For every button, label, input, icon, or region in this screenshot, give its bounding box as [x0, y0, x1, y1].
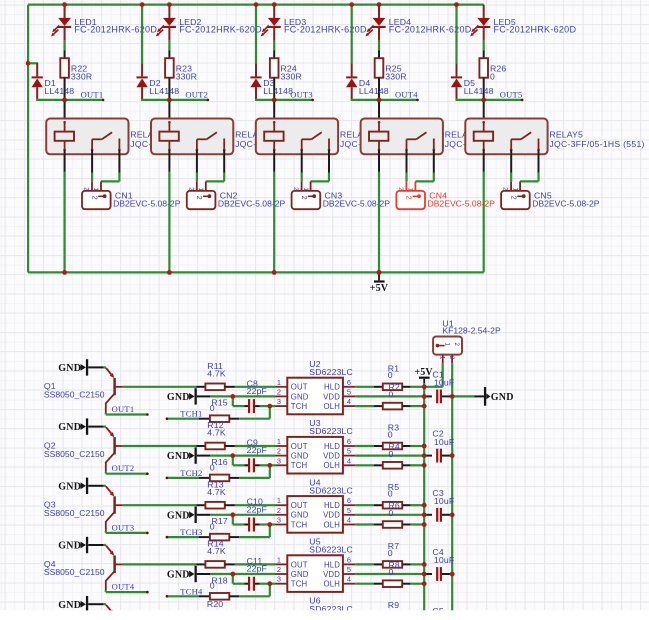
- pin lead U4 pin 5: [343, 514, 355, 516]
- resistor R6 0 labels: [389, 501, 400, 518]
- wire U1 pin1 to +5V node: [424, 363, 443, 387]
- wire U3 VDD to +5V rail: [355, 455, 424, 457]
- svg-text:LL4148: LL4148: [263, 86, 293, 96]
- ground flag GND U2: [167, 388, 233, 404]
- svg-text:TCH: TCH: [291, 402, 307, 411]
- resistor R8 0 labels: [389, 560, 400, 577]
- svg-text:KF128-2.54-2P: KF128-2.54-2P: [442, 326, 501, 336]
- svg-text:GND: GND: [58, 600, 81, 611]
- svg-text:1: 1: [444, 342, 451, 346]
- wire R4 to +5V rail: [411, 464, 425, 466]
- wire TCH node drop: [269, 465, 271, 478]
- svg-text:LL4148: LL4148: [149, 86, 179, 96]
- capacitor C3 10uF: [424, 488, 454, 522]
- pin lead U2 pin 3: [275, 405, 287, 407]
- wire left vertical rail: [27, 5, 29, 273]
- pin number 3: [277, 516, 281, 525]
- resistor R6 0: [374, 521, 411, 528]
- wire OUT5 node to relay coil: [483, 100, 485, 122]
- wire R5 to +5V rail: [411, 504, 425, 506]
- wire TCH node to U5 pin3: [270, 583, 275, 585]
- resistor R13 4.7K: [196, 479, 235, 508]
- svg-text:+5V: +5V: [370, 283, 389, 294]
- svg-text:+5V: +5V: [415, 367, 434, 378]
- net label OUT3: [274, 90, 314, 102]
- pin lead U4 pin 3: [275, 524, 287, 526]
- svg-text:1: 1: [197, 188, 204, 192]
- svg-text:R9: R9: [388, 600, 399, 610]
- svg-text:OUT2: OUT2: [185, 90, 208, 100]
- wire R22 to OUT1 node: [64, 78, 66, 100]
- IC U5 SD6223LC: [287, 537, 353, 592]
- resistor R8 0: [374, 580, 411, 587]
- svg-text:FC-2012HRK-620D: FC-2012HRK-620D: [179, 24, 262, 34]
- svg-text:10uF: 10uF: [434, 496, 454, 506]
- capacitor C11 22pF: [233, 556, 270, 591]
- wire R17 to TCH node: [239, 536, 270, 538]
- resistor R7 0: [374, 541, 411, 568]
- svg-text:TCH: TCH: [291, 461, 307, 470]
- wire TCH node drop: [269, 406, 271, 419]
- pin number 4: [347, 456, 351, 465]
- wire relay3 common to CN3 pin2: [301, 150, 303, 182]
- pin number 6: [347, 437, 351, 446]
- svg-text:DB2EVC-5.08-2P: DB2EVC-5.08-2P: [218, 198, 286, 208]
- svg-text:SD6223LC: SD6223LC: [309, 426, 353, 436]
- wire LED4 to R25: [378, 41, 380, 59]
- capacitor C8 22pF: [233, 378, 270, 413]
- junction dot GND rail row 3: [450, 512, 455, 517]
- pin number 4: [347, 397, 351, 406]
- pin number 5: [347, 387, 351, 396]
- ground flag GND Q4: [58, 537, 106, 553]
- svg-text:DB2EVC-5.08-2P: DB2EVC-5.08-2P: [323, 198, 391, 208]
- junction dot OUT4 node: [377, 98, 382, 103]
- junction dot OUT3 node: [272, 98, 277, 103]
- svg-text:4.7K: 4.7K: [207, 546, 226, 556]
- svg-text:0: 0: [210, 581, 215, 591]
- connector CN1 DB2EVC-5.08-2P: [82, 181, 181, 209]
- wire U4 OLH to R6: [355, 523, 374, 525]
- junction dot GND rail row 4: [450, 572, 455, 577]
- resistor R24 330R: [270, 58, 302, 81]
- svg-text:VDD: VDD: [323, 570, 340, 579]
- junction dot +5V flag: [377, 270, 382, 275]
- wire R15 to TCH node: [239, 418, 270, 420]
- svg-text:2: 2: [448, 356, 455, 360]
- wire relay1 common to CN1 pin2: [91, 150, 93, 182]
- junction dot +5V rail row 4 c: [422, 581, 427, 586]
- junction dot top bus LED4: [377, 2, 382, 7]
- svg-text:OUT: OUT: [291, 560, 308, 569]
- svg-text:0: 0: [210, 522, 215, 532]
- LED LED1 FC-2012HRK-620D: [51, 17, 157, 41]
- ground flag GND Q2: [58, 418, 106, 434]
- pin number 3: [277, 456, 281, 465]
- svg-text:2: 2: [453, 342, 460, 346]
- wire Q4 base to R14: [123, 563, 197, 565]
- wire R13 to U4 pin1: [235, 504, 275, 506]
- junction dot +5V rail row 3 b: [422, 512, 427, 517]
- wire LED2 anode drop: [168, 5, 170, 18]
- svg-text:4: 4: [347, 516, 351, 525]
- pin number 2: [277, 387, 281, 396]
- svg-text:0: 0: [210, 403, 215, 413]
- svg-text:3: 3: [277, 456, 281, 465]
- resistor R4 0: [374, 462, 411, 469]
- svg-text:LL4148: LL4148: [359, 86, 389, 96]
- resistor R20 label: [207, 599, 223, 609]
- svg-text:1: 1: [277, 496, 281, 505]
- svg-text:2: 2: [277, 565, 281, 574]
- capacitor C10 22pF: [233, 497, 270, 532]
- junction dot +5V rail row 3 c: [422, 522, 427, 527]
- wire U2 VDD to +5V rail: [355, 395, 424, 397]
- wire OUT4 node to relay coil: [378, 100, 380, 122]
- wire LED3 anode drop: [273, 5, 275, 18]
- svg-text:330R: 330R: [281, 71, 302, 81]
- net label TCH1: [166, 409, 203, 420]
- wire relay1 NO contact to CN1 pin1: [101, 150, 119, 182]
- wire D5 to OUT5 node: [456, 99, 484, 100]
- wire D3 drop: [255, 5, 257, 77]
- svg-text:SS8050_C2150: SS8050_C2150: [44, 567, 105, 577]
- resistor R14 4.7K: [196, 539, 235, 568]
- svg-text:FC-2012HRK-620D: FC-2012HRK-620D: [494, 24, 577, 34]
- wire LED4 anode drop: [378, 5, 380, 18]
- pin lead U3 pin 5: [343, 455, 355, 457]
- junction dot TCH node row 3: [267, 522, 272, 527]
- resistor R17 0: [199, 516, 240, 540]
- svg-text:VDD: VDD: [323, 511, 340, 520]
- svg-text:VDD: VDD: [323, 452, 340, 461]
- net label TCH2: [166, 468, 203, 479]
- pin lead U3 pin 4: [343, 464, 355, 466]
- svg-text:0: 0: [389, 449, 394, 459]
- diode D5 LL4148: [451, 76, 494, 99]
- wire U4 VDD to +5V rail: [355, 514, 424, 516]
- junction dot D5 top: [454, 2, 459, 7]
- wire R12 to U3 pin1: [235, 445, 275, 447]
- pin number 3: [277, 397, 281, 406]
- svg-text:OLH: OLH: [324, 461, 340, 470]
- wire R18 to TCH node: [239, 595, 270, 597]
- junction dot top bus LED3: [272, 2, 277, 7]
- junction dot D1 tap: [26, 61, 31, 66]
- net label OUT4 (driver): [106, 582, 149, 594]
- svg-text:HLD: HLD: [324, 560, 340, 569]
- capacitor C9 22pF: [233, 438, 270, 473]
- IC U4 pin names: [291, 501, 340, 529]
- pin number 1: [277, 496, 281, 505]
- pin lead U3 pin 6: [343, 445, 355, 447]
- diode D4 LL4148: [346, 76, 389, 99]
- wire GND node to U5 pin2: [233, 573, 275, 575]
- junction dot OUT5 node: [481, 98, 486, 103]
- IC U6 SD6223LC: [287, 596, 353, 620]
- pin number 2: [277, 565, 281, 574]
- junction dot bus ch2: [167, 270, 172, 275]
- wire LED2 to R23: [168, 41, 170, 59]
- wire R16 to TCH node: [239, 477, 270, 479]
- svg-text:OUT3: OUT3: [112, 522, 135, 532]
- transistor Q3 SS8050_C2150: [44, 486, 123, 531]
- pin lead U5 pin 6: [343, 563, 355, 565]
- svg-text:5: 5: [347, 447, 351, 456]
- pin lead U4 pin 4: [343, 524, 355, 526]
- svg-text:4: 4: [347, 397, 351, 406]
- LED LED5 FC-2012HRK-620D: [470, 17, 576, 41]
- svg-text:GND: GND: [58, 422, 81, 433]
- wire GND node to U2 pin2: [233, 395, 275, 397]
- svg-text:1: 1: [277, 378, 281, 387]
- svg-text:2: 2: [277, 506, 281, 515]
- junction dot GND-cap node row 3: [230, 512, 235, 517]
- capacitor C2 10uF: [424, 429, 454, 463]
- svg-text:HLD: HLD: [324, 383, 340, 392]
- resistor R26 0: [479, 58, 506, 81]
- svg-text:4.7K: 4.7K: [207, 368, 226, 378]
- svg-text:GND: GND: [167, 392, 190, 403]
- pin lead U5 pin 1: [275, 563, 287, 565]
- wire U4 HLD to R5: [355, 504, 374, 506]
- svg-text:22pF: 22pF: [247, 564, 267, 574]
- wire TCH node drop: [269, 525, 271, 538]
- svg-text:10uF: 10uF: [434, 378, 454, 388]
- LED LED4 FC-2012HRK-620D: [365, 17, 471, 41]
- svg-text:TCH: TCH: [291, 520, 307, 529]
- wire TCH node to U3 pin3: [270, 464, 275, 466]
- wire TCH node drop: [269, 584, 271, 597]
- wire GND node to U3 pin2: [233, 455, 275, 457]
- svg-text:0: 0: [388, 548, 393, 558]
- svg-text:0: 0: [389, 508, 394, 518]
- svg-text:OLH: OLH: [324, 402, 340, 411]
- junction dot +5V rail row 2 b: [422, 453, 427, 458]
- junction dot GND rail row 2: [450, 453, 455, 458]
- ground flag GND Q3: [58, 478, 106, 494]
- diode D2 LL4148: [136, 76, 179, 99]
- svg-text:2: 2: [187, 187, 194, 191]
- wire LED1 to R22: [63, 41, 65, 59]
- svg-text:SD6223LC: SD6223LC: [309, 367, 353, 377]
- relay RELAY5 JQC-3FF/05-1HS (551): [465, 119, 644, 155]
- junction dot OUT2 node: [167, 98, 172, 103]
- ground flag GND U5: [167, 566, 233, 582]
- wire OUT1 node to relay coil: [64, 100, 66, 122]
- LED LED2 FC-2012HRK-620D: [156, 17, 262, 41]
- junction dot D3 top: [254, 2, 259, 7]
- transistor Q5 SS8050_C2150: [106, 605, 123, 620]
- svg-text:10uF: 10uF: [434, 555, 454, 565]
- svg-text:GND: GND: [167, 510, 190, 521]
- wire R23 to OUT2 node: [168, 78, 170, 100]
- ground flag GND U3: [167, 447, 233, 463]
- pin number 6: [347, 378, 351, 387]
- svg-text:2: 2: [300, 196, 309, 200]
- resistor R23 330R: [165, 58, 197, 81]
- wire R7 to +5V rail: [411, 563, 425, 565]
- wire D4 drop: [351, 5, 353, 77]
- pin number 1: [277, 378, 281, 387]
- pin lead U2 pin 4: [343, 405, 355, 407]
- pin lead U5 pin 2: [275, 573, 287, 575]
- svg-text:FC-2012HRK-620D: FC-2012HRK-620D: [389, 24, 472, 34]
- wire U5 VDD to +5V rail: [355, 573, 424, 575]
- wire D3 to OUT3 node: [255, 99, 274, 100]
- svg-text:DB2EVC-5.08-2P: DB2EVC-5.08-2P: [428, 198, 496, 208]
- wire U5 HLD to R7: [355, 563, 374, 565]
- wire R3 to +5V rail: [411, 445, 425, 447]
- wire U3 OLH to R4: [355, 464, 374, 466]
- svg-text:GND: GND: [167, 570, 190, 581]
- svg-text:6: 6: [347, 555, 351, 564]
- wire R25 to OUT4 node: [378, 78, 380, 100]
- pin number 5: [347, 447, 351, 456]
- wire U2 HLD to R1: [355, 386, 374, 388]
- connector CN3 DB2EVC-5.08-2P: [292, 181, 391, 209]
- pin number 5: [347, 506, 351, 515]
- svg-text:OUT: OUT: [291, 501, 308, 510]
- power flag +5V bottom: [370, 272, 389, 294]
- svg-text:2: 2: [195, 196, 204, 200]
- connector U1 KF128-2.54-2P: [433, 318, 501, 363]
- svg-text:2: 2: [277, 387, 281, 396]
- pin lead U5 pin 3: [275, 583, 287, 585]
- wire Q3 base to R13: [123, 504, 197, 506]
- junction dot bus ch1: [62, 270, 67, 275]
- pin lead U2 pin 6: [343, 386, 355, 388]
- pin lead U4 pin 6: [343, 504, 355, 506]
- wire +5V top bus: [28, 3, 484, 5]
- junction dot D4 top: [349, 2, 354, 7]
- svg-text:2: 2: [277, 447, 281, 456]
- junction dot TCH node row 1: [267, 404, 272, 409]
- svg-text:GND: GND: [291, 392, 309, 401]
- IC U3 SD6223LC: [287, 418, 353, 473]
- wire OUT3 node to relay coil: [273, 100, 275, 122]
- connector CN4 DB2EVC-5.08-2P: [396, 181, 495, 209]
- svg-text:0: 0: [389, 567, 394, 577]
- capacitor C4 10uF: [424, 547, 454, 581]
- junction dot +5V rail row 2 c: [422, 463, 427, 468]
- svg-text:TCH: TCH: [291, 580, 307, 589]
- svg-text:SS8050_C2150: SS8050_C2150: [44, 390, 105, 400]
- wire Q2 base to R12: [123, 445, 197, 447]
- net label OUT3 (driver): [106, 522, 149, 534]
- resistor R18 0: [199, 575, 240, 599]
- resistor R3 0: [374, 423, 411, 450]
- resistor R2 0 labels: [389, 382, 400, 399]
- wire D4 to OUT4 node: [351, 99, 379, 100]
- wire relay4 coil to +5V bus: [378, 150, 380, 273]
- svg-text:OUT: OUT: [291, 383, 308, 392]
- pin lead U3 pin 3: [275, 464, 287, 466]
- svg-text:22pF: 22pF: [247, 445, 267, 455]
- junction dot GND-cap node row 1: [230, 394, 235, 399]
- svg-text:OUT1: OUT1: [81, 90, 104, 100]
- svg-text:0: 0: [389, 390, 394, 400]
- pin number 4: [347, 516, 351, 525]
- transistor Q2 SS8050_C2150: [44, 427, 123, 472]
- wire R2 to +5V rail: [411, 405, 425, 407]
- wire D1 stub: [28, 63, 38, 76]
- svg-text:22pF: 22pF: [247, 504, 267, 514]
- svg-text:2: 2: [397, 187, 404, 191]
- IC U2 pin names: [291, 383, 340, 411]
- wire D5 drop: [455, 5, 457, 77]
- wire R26 to OUT5 node: [483, 78, 485, 100]
- svg-text:4: 4: [347, 575, 351, 584]
- svg-text:4.7K: 4.7K: [207, 487, 226, 497]
- wire LED5 to R26: [483, 41, 485, 59]
- svg-text:1: 1: [277, 437, 281, 446]
- svg-text:GND: GND: [58, 363, 81, 374]
- svg-text:GND: GND: [491, 392, 514, 403]
- transistor Q4 SS8050_C2150: [44, 546, 123, 591]
- svg-text:4: 4: [347, 456, 351, 465]
- wire TCH node to U4 pin3: [270, 523, 275, 525]
- pin lead U4 pin 2: [275, 514, 287, 516]
- svg-text:2: 2: [90, 196, 99, 200]
- junction dot +5V rail row 4 b: [422, 572, 427, 577]
- wire GND node to U4 pin2: [233, 514, 275, 516]
- svg-text:GND: GND: [58, 541, 81, 552]
- svg-text:TCH2: TCH2: [180, 468, 202, 478]
- junction dot GND-cap node row 2: [230, 453, 235, 458]
- pin number 2: [277, 447, 281, 456]
- IC U5 pin names: [291, 560, 340, 588]
- wire relay2 NO contact to CN2 pin1: [206, 150, 224, 182]
- svg-text:SS8050_C2150: SS8050_C2150: [44, 449, 105, 459]
- junction dot +5V rail row 3 a: [422, 503, 427, 508]
- svg-text:0: 0: [490, 71, 495, 81]
- resistor R15 0: [199, 398, 240, 422]
- pin number 1: [277, 555, 281, 564]
- svg-text:5: 5: [347, 387, 351, 396]
- relay RELAY3 JQC-3FF/05-1HS (551): [256, 119, 435, 155]
- svg-text:1: 1: [511, 188, 518, 192]
- net label OUT2 (driver): [106, 463, 149, 475]
- svg-text:HLD: HLD: [324, 501, 340, 510]
- junction dot top bus LED1: [62, 2, 67, 7]
- svg-text:R20: R20: [207, 599, 223, 609]
- svg-text:1: 1: [92, 188, 99, 192]
- svg-text:2: 2: [292, 187, 299, 191]
- diode D3 LL4148: [250, 76, 293, 99]
- svg-text:SD6223LC: SD6223LC: [309, 485, 353, 495]
- junction dot bus ch4: [377, 270, 382, 275]
- relay RELAY2 JQC-3FF/05-1HS (551): [151, 119, 330, 155]
- net label TCH3: [166, 527, 203, 538]
- svg-text:OUT5: OUT5: [500, 90, 523, 100]
- svg-text:OLH: OLH: [324, 520, 340, 529]
- relay RELAY4 JQC-3FF/05-1HS (551): [361, 119, 540, 155]
- wire LED3 to R24: [273, 41, 275, 59]
- svg-text:HLD: HLD: [324, 442, 340, 451]
- resistor R2 0: [374, 403, 411, 410]
- pin number 2: [277, 506, 281, 515]
- junction dot +5V rail row 1 b: [422, 394, 427, 399]
- svg-text:DB2EVC-5.08-2P: DB2EVC-5.08-2P: [113, 198, 181, 208]
- power flag +5V top: [415, 367, 434, 387]
- wire relay4 common to CN4 pin2: [406, 150, 408, 182]
- wire OUT2 node to relay coil: [168, 100, 170, 122]
- junction dot D2 top: [140, 2, 145, 7]
- junction dot +5V rail row 4 a: [422, 562, 427, 567]
- pin lead U3 pin 2: [275, 455, 287, 457]
- pin number 1: [277, 437, 281, 446]
